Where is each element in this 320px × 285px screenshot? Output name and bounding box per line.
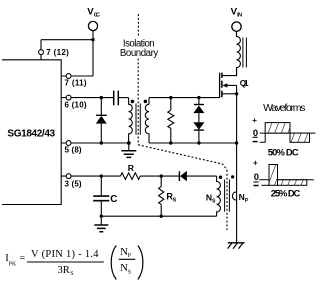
svg-text:P: P [245, 198, 249, 204]
svg-text:PK: PK [9, 261, 17, 267]
svg-text:=: = [20, 253, 26, 264]
svg-text:R: R [128, 163, 135, 173]
svg-text:Waveforms: Waveforms [263, 103, 305, 114]
svg-text:P: P [128, 253, 131, 259]
svg-text:IN: IN [237, 12, 242, 18]
svg-text:S: S [70, 271, 73, 277]
svg-text:3 (5): 3 (5) [65, 180, 82, 189]
svg-text:Boundary: Boundary [120, 48, 158, 59]
svg-text:C: C [110, 194, 117, 205]
svg-text:50% DC: 50% DC [268, 147, 299, 158]
svg-text:7 (11): 7 (11) [65, 79, 87, 88]
svg-text:+: + [252, 116, 257, 125]
svg-text:0: 0 [254, 171, 259, 182]
svg-text:V (PIN 1) - 1.4: V (PIN 1) - 1.4 [31, 249, 99, 260]
svg-text:SG1842/43: SG1842/43 [7, 128, 55, 139]
svg-text:+: + [253, 159, 258, 168]
svg-text:N: N [239, 192, 245, 202]
svg-text:6 (10): 6 (10) [65, 101, 87, 110]
svg-text:S: S [212, 198, 216, 204]
svg-text:3R: 3R [58, 265, 70, 276]
svg-text:S: S [128, 270, 131, 276]
svg-text:0: 0 [253, 127, 258, 138]
svg-text:25% DC: 25% DC [271, 187, 301, 198]
svg-text:CC: CC [94, 12, 100, 18]
svg-text:7 (12): 7 (12) [46, 48, 69, 57]
svg-text:S: S [173, 198, 177, 204]
svg-text:Q1: Q1 [240, 79, 249, 88]
svg-text:5 (8): 5 (8) [65, 146, 82, 155]
